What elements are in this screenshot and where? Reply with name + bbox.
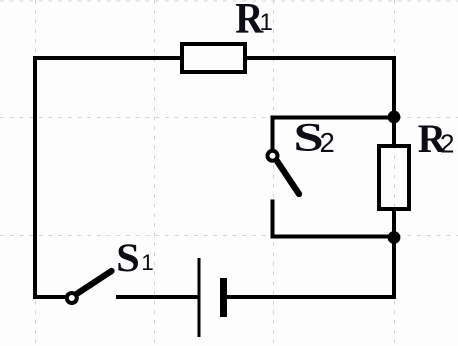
svg-text:2: 2 [440,129,454,159]
svg-text:S: S [116,235,140,280]
svg-text:1: 1 [141,250,154,275]
svg-text:1: 1 [260,9,273,36]
svg-text:2: 2 [320,127,335,158]
